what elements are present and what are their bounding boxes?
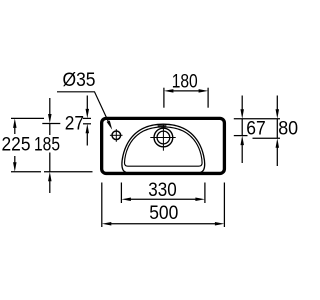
svg-text:185: 185 [34,133,60,155]
svg-text:225: 225 [2,133,31,155]
svg-text:330: 330 [148,179,177,201]
svg-text:27: 27 [65,113,84,135]
svg-text:180: 180 [172,70,198,92]
svg-text:Ø35: Ø35 [63,69,96,91]
svg-text:500: 500 [149,202,178,224]
svg-text:80: 80 [278,118,298,140]
svg-text:67: 67 [246,118,265,140]
